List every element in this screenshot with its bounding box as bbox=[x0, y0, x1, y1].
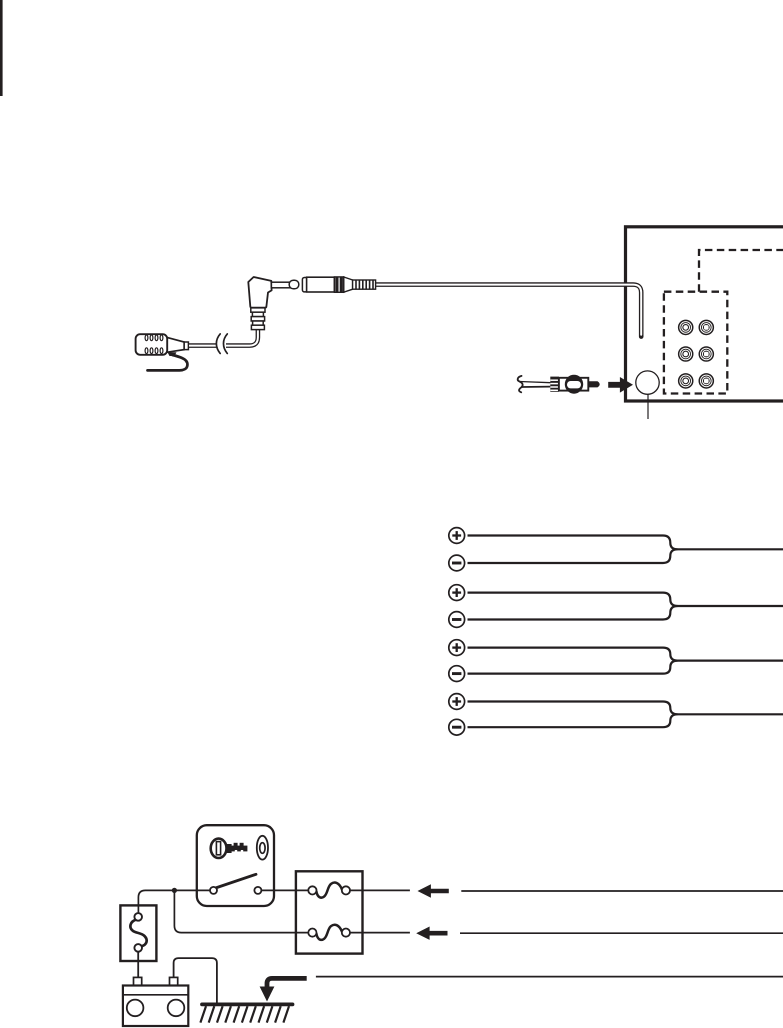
key icon blade bbox=[226, 843, 247, 853]
wire: accessory lead to edge bbox=[461, 890, 783, 892]
lower fuse bbox=[308, 925, 350, 940]
jack cable to unit bbox=[375, 285, 641, 337]
chassis ground hatching bbox=[200, 1006, 289, 1022]
right-angle plug body bbox=[248, 277, 271, 308]
rca jack row3 right bbox=[699, 373, 715, 389]
microphone clip mount bbox=[168, 352, 177, 356]
wire: ground lead to edge bbox=[316, 976, 783, 978]
speaker pair 1 plus terminal bbox=[449, 528, 465, 544]
microphone clip bbox=[148, 355, 188, 370]
battery cell cap right bbox=[168, 1000, 185, 1017]
microphone body bbox=[136, 334, 168, 355]
battery body bbox=[123, 986, 188, 1027]
rca jack row1 left bbox=[678, 320, 694, 336]
speaker pair 2 wires and merge bbox=[468, 593, 783, 620]
left fuse bbox=[130, 913, 146, 952]
jack body bbox=[307, 277, 335, 292]
page edge bar bbox=[0, 0, 3, 96]
junction dot bbox=[172, 888, 177, 893]
jack flange bbox=[302, 278, 307, 292]
wire: battery lead to edge bbox=[460, 932, 783, 934]
fuse block box bbox=[296, 871, 363, 953]
RCA group dashed box bbox=[664, 292, 727, 394]
rca jack row3 left bbox=[678, 373, 694, 389]
wire: main feed from fuse holder to switch bbox=[138, 890, 210, 913]
jack strain relief ribs bbox=[353, 280, 376, 290]
plug strain relief ridges bbox=[251, 308, 265, 330]
rca jack row2 right bbox=[699, 346, 715, 362]
microphone grille row 1 bbox=[145, 335, 163, 341]
antenna cable wires bbox=[520, 382, 551, 383]
wire: lower fuse out to arrow bbox=[350, 932, 410, 934]
speaker pair 1 minus terminal bbox=[449, 555, 465, 571]
keyhole bbox=[257, 836, 268, 860]
microphone cable (mic to right-angle plug) bbox=[189, 330, 258, 346]
microphone neck bbox=[167, 337, 185, 352]
speaker pair 3 wires and merge bbox=[468, 648, 783, 674]
rca jack row2 left bbox=[678, 346, 694, 362]
speaker pair 2 minus terminal bbox=[449, 612, 465, 628]
switch contact left bbox=[210, 887, 217, 894]
speaker pair 1 wires and merge bbox=[468, 536, 783, 564]
antenna plug ribbed collar bbox=[550, 377, 559, 392]
cable break mark bbox=[216, 334, 227, 354]
antenna plug body bbox=[559, 378, 588, 391]
switch contact right bbox=[254, 887, 261, 894]
wire: switch to fuse block upper fuse bbox=[261, 889, 308, 891]
plug shaft tip bbox=[289, 280, 299, 289]
plug shaft bbox=[271, 282, 291, 288]
jack bands bbox=[334, 277, 343, 292]
antenna jack leader line bbox=[647, 394, 649, 419]
chassis ground bar bbox=[202, 1003, 293, 1007]
key icon slot bbox=[216, 842, 220, 855]
upper fuse bbox=[308, 883, 350, 898]
antenna plug tip bbox=[588, 381, 599, 387]
left fuse holder box bbox=[120, 905, 156, 961]
dashed line to rear connector bbox=[699, 250, 783, 292]
antenna plug ellipse bbox=[565, 375, 583, 394]
antenna cable end curl bbox=[518, 376, 523, 392]
battery terminal right bbox=[170, 977, 178, 985]
microphone grille row 2 bbox=[145, 348, 163, 354]
arrow into antenna jack bbox=[608, 377, 633, 393]
speaker pair 3 minus terminal bbox=[449, 666, 465, 682]
speaker pair 2 plus terminal bbox=[449, 585, 465, 601]
battery top band line bbox=[123, 994, 188, 996]
bent arrow to ground bbox=[260, 978, 307, 1001]
antenna plug window bbox=[567, 381, 581, 388]
key icon head bbox=[211, 839, 227, 858]
arrow on battery lead bbox=[416, 927, 447, 940]
ignition switch box bbox=[197, 825, 274, 906]
wire: junction down to lower fuse bbox=[174, 890, 308, 932]
unit outline bbox=[626, 227, 783, 401]
switch lever bbox=[216, 874, 257, 888]
antenna jack circle bbox=[636, 371, 659, 394]
battery terminal left bbox=[134, 977, 142, 985]
arrow on accessory lead bbox=[418, 884, 449, 897]
battery cell cap left bbox=[127, 1000, 144, 1017]
wire: left fuse to battery terminal bbox=[137, 952, 139, 978]
wire: battery plus to chassis ground bbox=[174, 958, 217, 1003]
wire: upper fuse out to arrow bbox=[350, 889, 410, 891]
speaker pair 4 minus terminal bbox=[449, 719, 465, 735]
rca jack row1 right bbox=[699, 320, 715, 336]
speaker pair 4 plus terminal bbox=[449, 694, 465, 710]
jack taper bbox=[344, 277, 353, 292]
speaker pair 4 wires and merge bbox=[468, 702, 783, 728]
microphone tip bbox=[184, 342, 188, 350]
speaker pair 3 plus terminal bbox=[449, 640, 465, 656]
